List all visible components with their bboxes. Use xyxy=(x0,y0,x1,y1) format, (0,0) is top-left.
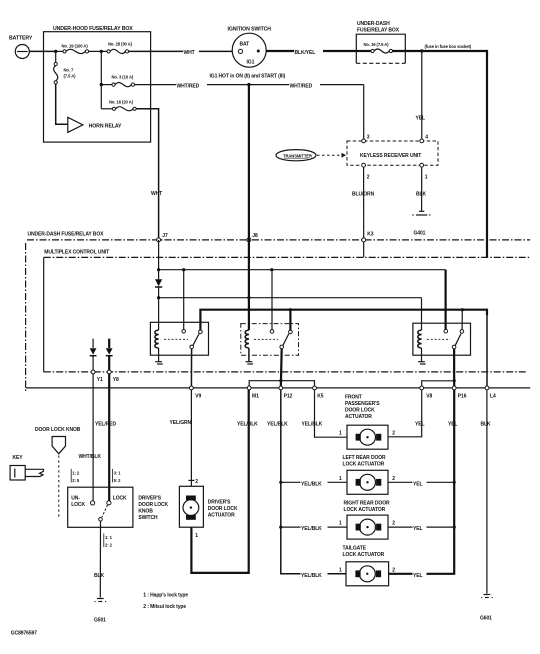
diode D2 on Y1 wire xyxy=(90,339,97,370)
svg-text:DOOR LOCK: DOOR LOCK xyxy=(345,408,375,414)
svg-text:YEL/BLK: YEL/BLK xyxy=(301,526,322,532)
svg-text:J7: J7 xyxy=(162,233,168,239)
pin Y1 xyxy=(91,370,103,383)
diode D1 xyxy=(155,270,162,298)
svg-text:No. 28 (30 A): No. 28 (30 A) xyxy=(108,41,133,46)
svg-text:2: 2 xyxy=(392,567,395,573)
svg-text:2 : Mitsui lock type: 2 : Mitsui lock type xyxy=(143,604,186,610)
fuse No.19 (100 A) xyxy=(62,44,89,54)
ground G401 xyxy=(412,211,430,236)
wire: power rail 1 from J7 xyxy=(157,240,446,271)
svg-text:TAILGATE: TAILGATE xyxy=(343,545,367,551)
svg-text:HORN RELAY: HORN RELAY xyxy=(89,123,122,129)
svg-text:FUSE/RELAY BOX: FUSE/RELAY BOX xyxy=(357,28,400,34)
svg-text:WHT/RED: WHT/RED xyxy=(290,84,313,90)
connector row line xyxy=(26,387,531,389)
svg-text:1: 1 xyxy=(339,567,342,573)
pin P12 xyxy=(279,386,293,399)
svg-text:No. 7: No. 7 xyxy=(64,68,75,73)
relay 3 output wire to P16 xyxy=(453,349,455,388)
pin J8 xyxy=(247,233,258,242)
svg-text:LEFT REAR DOOR: LEFT REAR DOOR xyxy=(343,455,387,461)
fuse No.3 (10 A) xyxy=(101,75,134,87)
svg-text:YEL: YEL xyxy=(416,116,425,122)
horn relay xyxy=(68,117,122,132)
fuse No.16 (20 A) xyxy=(101,99,136,111)
svg-text:1: 1 xyxy=(195,533,198,539)
svg-text:YEL/GRN: YEL/GRN xyxy=(170,420,192,426)
relay 2 (passenger doors) box xyxy=(241,324,299,356)
wire BLK keyless pin1 to ground xyxy=(416,167,429,211)
wire driver's actuator loop to M1 xyxy=(191,390,265,573)
wire fuse bus vertical xyxy=(100,51,102,108)
svg-text:G601: G601 xyxy=(480,616,492,622)
fuse No.7 vertical wire xyxy=(55,51,57,62)
svg-text:LOCK ACTUATOR: LOCK ACTUATOR xyxy=(343,552,385,558)
svg-text:ACTUATOR: ACTUATOR xyxy=(345,414,372,420)
ground G501 xyxy=(94,599,106,624)
pin Y8 xyxy=(107,370,119,383)
wire WHT/RED from fuse3 xyxy=(135,81,364,90)
tailgate lock actuator xyxy=(343,545,389,585)
svg-text:1 : Happ's lock type: 1 : Happ's lock type xyxy=(143,593,188,599)
relay 3 switch xyxy=(427,270,464,349)
right rear door lock actuator wires xyxy=(281,521,454,532)
svg-text:G501: G501 xyxy=(94,618,106,624)
diode D3 on Y8 wire xyxy=(106,339,113,370)
svg-text:Y1: Y1 xyxy=(97,377,103,383)
pin V9 xyxy=(190,386,202,399)
svg-text:PASSENGER'S: PASSENGER'S xyxy=(345,401,380,407)
wire battery to under-hood box xyxy=(29,50,55,52)
under-dash fuse/relay box (top) xyxy=(356,21,405,63)
pin annotation left (switch top) xyxy=(71,469,80,483)
svg-text:1: 1 xyxy=(339,431,342,437)
svg-text:K3: K3 xyxy=(367,232,374,238)
splice bar M1-P12-K5 xyxy=(249,379,314,388)
svg-text:BAT: BAT xyxy=(240,41,250,47)
svg-text:YEL: YEL xyxy=(413,481,422,487)
svg-text:2: 2 xyxy=(392,431,395,437)
svg-text:YEL/BLK: YEL/BLK xyxy=(302,421,323,427)
wire WHT/RED down to keyless pin 3 xyxy=(363,85,365,139)
svg-text:BLK: BLK xyxy=(481,421,491,427)
svg-text:Y8: Y8 xyxy=(113,377,119,383)
svg-text:(7.5 A): (7.5 A) xyxy=(64,74,77,79)
svg-text:YEL/BLK: YEL/BLK xyxy=(301,573,322,579)
keyless receiver unit xyxy=(347,134,438,180)
svg-text:DOOR LOCK: DOOR LOCK xyxy=(138,502,168,508)
svg-text:LOCK ACTUATOR: LOCK ACTUATOR xyxy=(344,507,386,513)
wire BLK/YEL to under-dash box xyxy=(266,47,356,56)
svg-text:WHT/RED: WHT/RED xyxy=(177,84,200,90)
pin K5 xyxy=(313,386,324,399)
svg-text:LOCK: LOCK xyxy=(71,502,85,508)
svg-text:WHT: WHT xyxy=(184,50,195,56)
fuse No.7 (7.5 A) xyxy=(54,62,77,84)
wire WHT/BLK Y1 to switch xyxy=(78,374,108,501)
svg-text:No. 19 (100 A): No. 19 (100 A) xyxy=(62,44,89,49)
wire YEL/RED Y8 to switch xyxy=(95,374,124,501)
svg-text:YEL/BLK: YEL/BLK xyxy=(301,481,322,487)
tailgate lock actuator wire labels xyxy=(301,567,427,578)
svg-text:KEY: KEY xyxy=(13,455,24,461)
dashed link transmitter to receiver xyxy=(317,153,346,158)
svg-text:YEL/BLK: YEL/BLK xyxy=(267,421,288,427)
relay 1 (driver door lock) box xyxy=(150,322,208,355)
svg-text:FRONT: FRONT xyxy=(345,395,362,401)
svg-text:BATTERY: BATTERY xyxy=(9,36,33,42)
relay 2 coil xyxy=(245,298,253,364)
svg-text:LOCK: LOCK xyxy=(113,496,127,502)
svg-text:UN-: UN- xyxy=(71,496,80,502)
svg-text:P16: P16 xyxy=(458,393,467,399)
wire YEL bus P16 down xyxy=(389,390,462,574)
svg-text:(fuse in fuse box socket): (fuse in fuse box socket) xyxy=(425,44,472,49)
ground G601 xyxy=(480,595,493,622)
relay 1 output wire to V9 xyxy=(190,349,192,388)
svg-text:GC8976597: GC8976597 xyxy=(11,631,37,637)
node: battery bus junction xyxy=(54,50,57,53)
svg-text:YEL: YEL xyxy=(448,421,457,427)
under-hood fuse/relay box xyxy=(44,26,151,142)
wire BLU/ORN keyless pin2 to K3 xyxy=(352,167,377,257)
svg-text:5: 2: 5: 2 xyxy=(114,478,122,483)
relay 1 coil xyxy=(155,298,163,364)
pin annotation below switch xyxy=(104,534,113,548)
left rear door lock actuator xyxy=(343,455,389,494)
svg-text:1: 1 xyxy=(339,476,342,482)
svg-text:2: 5: 2: 5 xyxy=(72,478,80,483)
svg-text:2: 2 xyxy=(195,479,198,485)
svg-text:DOOR LOCK KNOB: DOOR LOCK KNOB xyxy=(35,427,81,433)
svg-text:DRIVER'S: DRIVER'S xyxy=(208,500,231,506)
svg-text:YEL/BLK: YEL/BLK xyxy=(237,421,258,427)
svg-text:DRIVER'S: DRIVER'S xyxy=(138,496,161,502)
wire to fuse 19 xyxy=(56,50,64,52)
transmitter xyxy=(276,150,316,161)
relay 1 switch xyxy=(164,270,202,349)
splice bar V8-P16 xyxy=(422,379,456,388)
svg-text:2: 2 xyxy=(392,521,395,527)
svg-text:P12: P12 xyxy=(284,393,293,399)
svg-text:2: 2: 2: 2 xyxy=(105,543,113,548)
svg-text:ACTUATOR: ACTUATOR xyxy=(208,513,235,519)
svg-text:J8: J8 xyxy=(252,233,258,239)
svg-text:LOCK ACTUATOR: LOCK ACTUATOR xyxy=(343,461,385,467)
svg-text:MULTIPLEX CONTROL UNIT: MULTIPLEX CONTROL UNIT xyxy=(44,249,109,255)
svg-text:WHT/BLK: WHT/BLK xyxy=(79,454,102,460)
pin V8 xyxy=(420,386,433,399)
wire YEL/BLK K5 to front passenger actuator xyxy=(301,390,347,437)
pin L4 xyxy=(485,386,496,399)
key xyxy=(10,455,43,480)
svg-text:No. 19 (7.5 A): No. 19 (7.5 A) xyxy=(364,42,390,47)
pin annotation right (switch top) xyxy=(113,469,122,483)
fuse No.19 (7.5 A) xyxy=(356,42,392,53)
wire: rail 2 (diode bus) xyxy=(157,296,422,299)
svg-text:IGNITION SWITCH: IGNITION SWITCH xyxy=(228,26,272,32)
svg-text:YEL: YEL xyxy=(413,573,422,579)
svg-text:M1: M1 xyxy=(252,393,259,399)
svg-text:2: 2 xyxy=(367,175,370,181)
svg-text:No. 3 (10 A): No. 3 (10 A) xyxy=(112,75,134,80)
wire WHT from fuse16 down to J7 xyxy=(136,109,165,238)
svg-text:UNDER-DASH: UNDER-DASH xyxy=(357,21,390,27)
svg-text:No. 16 (20 A): No. 16 (20 A) xyxy=(109,99,134,104)
svg-text:3: 1: 3: 1 xyxy=(114,470,122,475)
wire YEL V8 to front passenger actuator xyxy=(388,390,429,437)
svg-text:IG1: IG1 xyxy=(247,59,255,65)
wire BLK L4 to ground xyxy=(480,390,494,594)
svg-text:2: 2 xyxy=(392,476,395,482)
wire fuse19 to junction xyxy=(89,50,107,52)
wire YEL/BLK bus P12 down xyxy=(267,390,347,574)
svg-text:UNDER-DASH FUSE/RELAY BOX: UNDER-DASH FUSE/RELAY BOX xyxy=(28,232,105,238)
svg-text:BLK/YEL: BLK/YEL xyxy=(295,50,316,56)
svg-text:1: 1: 1: 1 xyxy=(105,535,113,540)
multiplex control unit box xyxy=(44,249,531,372)
svg-text:UNDER-HOOD FUSE/RELAY BOX: UNDER-HOOD FUSE/RELAY BOX xyxy=(53,26,133,32)
svg-text:3: 3 xyxy=(367,134,370,140)
svg-text:1: 1 xyxy=(339,521,342,527)
svg-text:K5: K5 xyxy=(317,393,324,399)
node: WHT/RED branch xyxy=(247,83,250,86)
svg-text:BLK: BLK xyxy=(94,573,104,579)
wire YEL feed to right side xyxy=(393,44,488,258)
battery xyxy=(9,36,33,59)
wire: ground bus 3 xyxy=(200,308,487,388)
under-dash fuse/relay box band xyxy=(26,232,531,392)
svg-text:WHT: WHT xyxy=(151,191,162,197)
svg-text:G401: G401 xyxy=(414,231,426,237)
front passenger's door lock actuator xyxy=(345,395,388,450)
svg-text:TRANSMITTER: TRANSMITTER xyxy=(283,153,312,158)
svg-text:YEL: YEL xyxy=(413,526,422,532)
relay 2 switch xyxy=(254,270,292,349)
relay 2 output wire to P12 xyxy=(280,349,283,388)
wire WHT/RED J8 to relay coil xyxy=(248,85,250,240)
svg-text:DOOR LOCK: DOOR LOCK xyxy=(208,506,238,512)
right rear door lock actuator xyxy=(344,501,390,539)
fuse No.28 (30 A) xyxy=(107,41,133,53)
svg-text:YEL: YEL xyxy=(415,421,424,427)
svg-text:KEYLESS RECEIVER UNIT: KEYLESS RECEIVER UNIT xyxy=(360,153,421,159)
left rear door lock actuator wires xyxy=(281,476,454,487)
svg-text:IG1 HOT in ON (II) and START (: IG1 HOT in ON (II) and START (III) xyxy=(210,74,286,80)
pin K3 xyxy=(362,232,374,242)
svg-text:RIGHT REAR DOOR: RIGHT REAR DOOR xyxy=(344,501,390,507)
wire WHT to ignition switch xyxy=(129,47,233,56)
wire fuse7 to horn relay xyxy=(56,84,68,124)
relay 3 (tailgate) box xyxy=(413,323,471,355)
switch contacts xyxy=(91,501,112,521)
svg-text:V9: V9 xyxy=(195,393,201,399)
switch label xyxy=(138,496,168,522)
svg-text:SWITCH: SWITCH xyxy=(138,515,158,521)
svg-text:KNOB: KNOB xyxy=(138,509,153,515)
ignition switch xyxy=(228,26,272,67)
wire YEL/GRN V9 to driver's actuator xyxy=(169,390,198,487)
pin P16 xyxy=(452,386,466,399)
pin J7 xyxy=(157,233,168,242)
svg-text:1: 1 xyxy=(425,175,428,181)
wire YEL to keyless pin 4 xyxy=(415,51,429,139)
relay 3 coil xyxy=(418,298,426,364)
driver's door lock actuator xyxy=(179,486,238,527)
door lock knob xyxy=(35,427,81,518)
svg-text:L4: L4 xyxy=(490,393,496,399)
svg-text:4: 4 xyxy=(425,134,428,140)
svg-text:V8: V8 xyxy=(426,393,432,399)
wire BLK switch to ground xyxy=(94,521,108,597)
driver's door lock knob switch box xyxy=(68,487,133,527)
svg-text:1: 2: 1: 2 xyxy=(72,470,80,475)
svg-text:YEL/RED: YEL/RED xyxy=(95,421,116,427)
pin M1 xyxy=(247,386,259,399)
